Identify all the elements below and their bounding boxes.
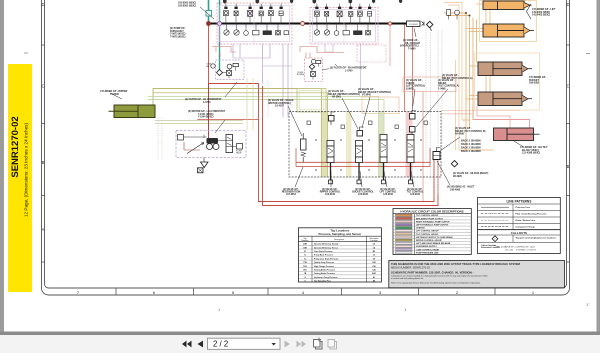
wire pink group outline tilt control [441, 111, 520, 114]
valve bank red pressure gallery [296, 161, 430, 163]
svg-text:(2) VALVE GP -: (2) VALVE GP - [283, 188, 299, 191]
filter LH square X [227, 71, 232, 76]
tap diamond near inlet [451, 161, 457, 167]
svg-text:(LIMIT): (LIMIT) [406, 87, 414, 90]
filter RH stubs [312, 64, 318, 80]
svg-text:C86: C86 [372, 262, 375, 264]
svg-text:Drain / Return Line: Drain / Return Line [516, 219, 536, 222]
wire olive drop to ripper cylinder [152, 89, 154, 106]
svg-text:4D-3901: 4D-3901 [332, 96, 342, 99]
motor LH pump circle 2 [213, 144, 219, 150]
wire red loop inner [263, 86, 439, 206]
valve bank color stripe pale green [379, 112, 385, 178]
leader line lift check label [412, 89, 415, 112]
cylinder GP RH tilt (pink) [494, 128, 540, 141]
svg-text:123-9136: 123-9136 [383, 194, 393, 196]
svg-text:CASE CONTROL DRAIN: CASE CONTROL DRAIN [416, 248, 439, 251]
svg-text:Description: Description [334, 238, 344, 241]
filter LH circle [227, 64, 232, 69]
svg-text:LINE PATTERNS: LINE PATTERNS [506, 199, 531, 203]
relief valve spring [301, 152, 306, 157]
node junction red ring mid [301, 22, 305, 26]
cooler outlet symbol [422, 22, 425, 27]
filter RH diamond [309, 64, 314, 69]
schematic outer border frame [42, 0, 570, 295]
wire red pair to tilt relief [404, 24, 406, 113]
svg-text:LEFT AND RIGHT BRAKE RELEASE: LEFT AND RIGHT BRAKE RELEASE [416, 242, 451, 245]
svg-text:(2) VALVE GP -: (2) VALVE GP - [355, 188, 371, 191]
wire red pair to tilt relief 2 [412, 24, 414, 107]
svg-text:C: C [566, 84, 569, 89]
tank drop line [203, 158, 205, 163]
pump group 2 inner divider [310, 8, 378, 45]
wire tan group outline lift cylinders [480, 1, 537, 42]
filter RH small rect [316, 61, 321, 64]
svg-text:C6: C6 [373, 255, 375, 257]
svg-text:B42: B42 [372, 272, 375, 275]
valve bank color stripe pink [406, 112, 413, 178]
tank square X [198, 168, 204, 173]
svg-text:COOLER: COOLER [409, 24, 418, 26]
svg-text:49-4098: 49-4098 [455, 133, 464, 136]
group outline tan bucket relief [362, 97, 399, 114]
left gray viewer edge [0, 0, 4, 332]
svg-text:5J-4107: 5J-4107 [275, 105, 284, 108]
wire tan bundle horizontals to lift cylinders [444, 13, 470, 16]
bank small squares row top [307, 121, 428, 129]
wire dark red drop from pump node [208, 84, 210, 145]
toolbar snapshot icon [314, 338, 323, 350]
motor LH flushing capsule [226, 135, 233, 153]
svg-text:108-4963: 108-4963 [450, 188, 461, 191]
svg-text:Refer to the appropriate Servi: Refer to the appropriate Service Manual … [391, 282, 481, 285]
leader line cooler label [414, 28, 416, 37]
svg-text:Pump Back Pressure: Pump Back Pressure [314, 255, 333, 257]
svg-text:31: 31 [304, 251, 306, 253]
filter LH square X marks [227, 71, 232, 76]
wire gray drain dotted lines [426, 27, 442, 195]
line patterns table [478, 198, 561, 230]
svg-text:TILT CONTROL GROUP: TILT CONTROL GROUP [416, 215, 439, 217]
inlet housing inner [433, 148, 441, 156]
pump group 1 symbols row upper [224, 11, 284, 17]
motor LH flushing inner lines [226, 137, 233, 147]
check valve dots row [315, 140, 422, 170]
motor LH dark block [207, 138, 219, 144]
svg-text:D: D [566, 2, 569, 7]
svg-text:7-0480: 7-0480 [408, 47, 416, 50]
pilot caps above pump symbols [224, 7, 371, 9]
svg-text:Injection Efficiency Sample: Injection Efficiency Sample [314, 243, 338, 246]
wire tan elbow feeds [456, 3, 463, 151]
wire red return to motor group [198, 119, 259, 121]
pilot valve square tilt [410, 127, 416, 133]
svg-text:LIFT CONTROL GROUP: LIFT CONTROL GROUP [416, 231, 439, 233]
svg-text:9: 9 [304, 281, 305, 283]
svg-text:7B1: 7B1 [303, 270, 306, 272]
node junction maroon filled [206, 21, 211, 26]
cylinder GP bucket lower (brown) [478, 92, 532, 106]
filter group LH boundary [216, 60, 245, 80]
svg-text:9T-3440: 9T-3440 [362, 94, 371, 97]
filter RH square X [311, 72, 316, 77]
pilot valve bucket flag [360, 127, 364, 131]
valve bank boundary dashed [289, 112, 441, 178]
motor LH pump circle 1 [207, 144, 213, 150]
wires pennants to caps [226, 4, 370, 7]
valve bank color stripe olive [322, 112, 328, 178]
wire pale lines right of ripper cylinder [155, 121, 243, 124]
svg-text:D: D [41, 2, 44, 7]
svg-text:B: B [42, 160, 45, 165]
wire tan junction dots [465, 12, 467, 14]
svg-text:(2) VALVE GP - CONTROL GP - 4D: (2) VALVE GP - CONTROL GP - 4D-8 [501, 246, 535, 249]
svg-text:RIPPER CONTROL GROUP: RIPPER CONTROL GROUP [416, 240, 442, 242]
zone tick marks right [567, 45, 570, 262]
pump group 1 boundary (lavender dashed) [217, 3, 292, 44]
node junction red ring right [388, 22, 391, 25]
pump group 2 symbols row lower [314, 30, 370, 36]
spool valve ripper [327, 141, 334, 184]
hydraulic circuit color descriptions table [393, 209, 471, 255]
svg-text:C6: C6 [373, 258, 375, 260]
svg-text:SENR1270-02: SENR1270-02 [10, 116, 21, 177]
svg-text:SCHEMATIC PART NUMBER: 123-339: SCHEMATIC PART NUMBER: 123-3397, CHANGE:… [391, 270, 474, 274]
valve bank bottom labels [282, 188, 424, 196]
leader line valve labels fan [295, 167, 414, 187]
svg-text:7J-8008: 7J-8008 [110, 93, 119, 96]
valve bank color stripe pale yellow [346, 112, 352, 178]
oil cooler box [407, 21, 421, 26]
svg-text:Implement Temp Pressure: Implement Temp Pressure [314, 276, 338, 279]
pump group 2 boundary (pink dashed) [310, 8, 378, 45]
svg-text:7-0975 (953C): 7-0975 (953C) [170, 35, 186, 38]
svg-text:141-9403 (953C): 141-9403 (953C) [532, 14, 550, 17]
zone tick marks left [42, 45, 45, 262]
pump group 1 inner divider [217, 3, 292, 44]
svg-text:12 Page, (Dimensions: 23 Inche: 12 Page, (Dimensions: 23 Inches x 24 Inc… [23, 123, 28, 217]
svg-text:A: A [42, 227, 45, 232]
svg-text:BYPASS: BYPASS [297, 73, 305, 76]
svg-text:High Charge Pressure: High Charge Pressure [314, 266, 334, 268]
callouts table [478, 230, 561, 254]
wire tan verticals down right side [466, 13, 477, 150]
svg-text:1-0498: 1-0498 [438, 87, 446, 90]
svg-text:103-8581 (953C): 103-8581 (953C) [178, 4, 196, 7]
svg-text:Location: Location [370, 239, 378, 242]
filter LH stubs [223, 67, 236, 79]
wire gray drain near motor [158, 44, 292, 160]
filter RH leader [322, 69, 329, 70]
cylinder GP lift lower (orange) [483, 24, 534, 37]
svg-text:C46: C46 [372, 269, 375, 272]
svg-text:123-9136: 123-9136 [358, 194, 368, 196]
svg-text:Towing Brake Pressure: Towing Brake Pressure [314, 273, 335, 275]
svg-text:CALLOUTS: CALLOUTS [511, 231, 527, 235]
svg-text:1": 1" [586, 302, 590, 307]
toolbar first-page button [182, 341, 192, 348]
wire red loop outer (implement pump) [209, 24, 435, 202]
wire red elbow pump2 to filter [300, 47, 344, 59]
valve bank red gallery lower [296, 148, 430, 167]
wire tan group outline bucket cylinders [475, 53, 540, 110]
svg-text:C86: C86 [372, 266, 375, 268]
pump group 1 symbols row lower [224, 30, 289, 36]
svg-text:THIS SCHEMATIC IS FOR THE 953C: THIS SCHEMATIC IS FOR THE 953C AND 953C … [391, 262, 521, 266]
svg-text:BACK 2 109-8806: BACK 2 109-8806 [461, 150, 481, 153]
wire lavender pilot mesh pump2 [325, 44, 361, 90]
svg-text:LEFT/RIGHT SUPPLY TO CASE DRAI: LEFT/RIGHT SUPPLY TO CASE DRAIN [416, 236, 453, 239]
wire pale-green horizontal lower [148, 100, 384, 178]
svg-text:7-1544 (953C): 7-1544 (953C) [198, 116, 214, 119]
wire pink tilt lines to cylinder [473, 106, 530, 128]
top edge cut symbols [223, 0, 402, 4]
filter LH diamond [217, 70, 223, 76]
svg-text:107-6054: 107-6054 [286, 193, 296, 196]
relief cluster right of pump 2 [447, 10, 460, 20]
lift cylinders label bracket [527, 4, 532, 19]
svg-text:109-6382: 109-6382 [529, 82, 540, 85]
tank square X marks [198, 168, 204, 173]
pale drain verticals filter to motor [247, 78, 253, 131]
relief valve in bank [301, 139, 307, 150]
svg-text:CHARGE: CHARGE [416, 227, 425, 230]
svg-text:Pressure Line: Pressure Line [516, 207, 531, 209]
svg-text:B5: B5 [373, 251, 375, 253]
leader line filter LH label [225, 82, 237, 97]
toolbar last-page button disabled [297, 341, 307, 348]
toolbar dropdown caret [272, 343, 276, 346]
svg-text:Pump Case Drain Pressure: Pump Case Drain Pressure [314, 258, 338, 260]
filter RH circle [312, 59, 316, 63]
tap locations table [298, 228, 381, 283]
svg-text:HYDRAULIC CIRCUIT COLOR DESCRI: HYDRAULIC CIRCUIT COLOR DESCRIPTIONS [400, 210, 463, 214]
wire lavender pilot mesh verticals [233, 44, 288, 118]
pilot valve tilt flag [411, 132, 413, 135]
svg-text:1-0700: 1-0700 [345, 69, 353, 72]
page fold tick right margin [586, 53, 590, 55]
toolbar page field [208, 338, 281, 349]
motor LH flush valve box [237, 144, 243, 150]
wire pale-green horizontal upper [148, 97, 379, 178]
leader line inlet label [437, 161, 450, 185]
pump group 1 internal stub wires [226, 16, 281, 31]
svg-text:1-0700: 1-0700 [203, 101, 211, 104]
node junction purple ring [218, 22, 222, 26]
svg-text:(2) VALVE GP -: (2) VALVE GP - [380, 188, 396, 191]
toolbar prev-page button [198, 341, 204, 348]
svg-text:REGENERATION: REGENERATION [282, 191, 301, 194]
pump group 2 internal stub wires [317, 16, 370, 31]
schematic inner border frame [45, 0, 567, 288]
bottom zone ticks [116, 288, 495, 295]
tap diamond at cooler [427, 21, 433, 27]
tap diamond tail [430, 28, 432, 31]
svg-text:123-9136: 123-9136 [410, 194, 420, 196]
svg-text:LEFT HYDRAULIC PUMP OUTPUT: LEFT HYDRAULIC PUMP OUTPUT [416, 224, 449, 227]
svg-text:76/5: 76/5 [303, 266, 307, 268]
svg-text:2 / 2: 2 / 2 [213, 340, 228, 349]
motor LH left port square [178, 135, 184, 141]
svg-text:Towing Brake Pressure: Towing Brake Pressure [314, 270, 335, 272]
wire purple drop from bus node [219, 24, 221, 45]
svg-text:SUSPENDED SUPPLY: SUSPENDED SUPPLY [416, 246, 437, 248]
leader line tilt relief label [416, 89, 448, 127]
svg-text:RIGHT HYDRAULIC PUMP OUTPUT: RIGHT HYDRAULIC PUMP OUTPUT [416, 220, 450, 223]
svg-text:Quality Loop Pressure: Quality Loop Pressure [314, 261, 334, 264]
cylinder GP ripper (olive) [109, 105, 156, 118]
svg-text:Component Group: Component Group [516, 226, 536, 229]
filter RH square X marks [311, 72, 316, 77]
motor LH wire red branch [184, 142, 200, 150]
toolbar separator [0, 332, 600, 336]
leader line ripper cyl label [110, 93, 122, 99]
pilot valve square bucket [357, 131, 363, 137]
bottom zone numbers [77, 290, 535, 295]
cylinder GP bucket upper (brown) [478, 62, 532, 76]
svg-text:98-4995: 98-4995 [453, 175, 462, 178]
svg-text:C8 - C31: C8 - C31 [505, 250, 514, 252]
leader line pump label [200, 7, 214, 19]
svg-text:A1: A1 [373, 276, 375, 279]
spool valve lift [380, 135, 387, 184]
group outline light red tilt check [403, 77, 456, 92]
filter group RH boundary [305, 58, 323, 82]
leader line solex label [288, 106, 302, 136]
pilot valve ripper flag [331, 112, 335, 125]
wire tan into bucket cylinders [459, 4, 494, 150]
relief valve stem [302, 133, 304, 162]
svg-text:Case Drain Pressure: Case Drain Pressure [314, 251, 333, 253]
toolbar background [0, 335, 600, 353]
svg-text:Number: Number [301, 240, 308, 242]
motor LH internal wires [184, 135, 237, 147]
filter LH small rect [233, 64, 239, 67]
pump group 2 symbols row upper [315, 11, 372, 17]
svg-text:B: B [567, 164, 570, 169]
svg-text:RELIEF (TILT CONTROL A): RELIEF (TILT CONTROL A) [442, 77, 473, 80]
toolbar next-page button disabled [285, 341, 291, 348]
svg-text:8: 8 [304, 277, 305, 279]
page fold tick left margin [24, 52, 28, 54]
svg-text:Pilot / Load Sensing Pressure: Pilot / Load Sensing Pressure [516, 213, 548, 216]
wire red elbow pump1 to filter [212, 47, 236, 59]
svg-text:MEGA NUMBER: SENR1270-02: MEGA NUMBER: SENR1270-02 [391, 265, 430, 269]
svg-text:in neutral and with parking br: in neutral and with parking brake set. [391, 277, 424, 280]
svg-text:Tap Sampling Port: Tap Sampling Port [314, 280, 331, 283]
pilot valve square lift [410, 114, 416, 120]
leader line bucket relief label [362, 97, 370, 128]
cylinder GP lift upper (orange) [483, 1, 532, 10]
svg-text:Injection Efficiency Sensor: Injection Efficiency Sensor [314, 246, 338, 249]
motor group LH boundary [176, 131, 246, 158]
group outline khaki ripper relief [297, 89, 326, 113]
motor LH arrow pointer [187, 143, 204, 154]
svg-text:IMPLEMENT PUMP OUTPUT: IMPLEMENT PUMP OUTPUT [416, 218, 444, 220]
wire olive pair lower [153, 93, 328, 177]
svg-text:C: C [41, 84, 44, 89]
spool valve tilt [407, 135, 414, 184]
svg-text:TILT CONTROL GROUP: TILT CONTROL GROUP [416, 234, 439, 236]
svg-text:Pressure, Sampling, and Sensor: Pressure, Sampling, and Sensor [318, 232, 362, 236]
line as circle [211, 64, 215, 68]
wire olive pair horizontal to valve bank [153, 89, 322, 178]
svg-text:121-4396 (953C): 121-4396 (953C) [522, 152, 540, 155]
svg-text:(2) VALVE GP -: (2) VALVE GP - [322, 188, 338, 191]
gray note block [389, 261, 565, 288]
pilot valve lift flag [412, 111, 416, 114]
svg-text:VALVE: VALVE [236, 152, 242, 155]
wire main black pressure bus [209, 23, 413, 25]
pilot valve square ripper [329, 116, 335, 122]
svg-text:Tap (pressure/sampling/sensor: Tap (pressure/sampling/sensor location) [516, 236, 556, 239]
wire pale orange feeds at very top [444, 3, 462, 6]
leader line filter RH label [335, 64, 337, 66]
svg-text:Schematic Location: Schematic Location [481, 246, 501, 249]
leader line ripper relief label [342, 98, 358, 129]
leader line tilt cyl label [513, 141, 523, 147]
wire teal supply A (vertical from top) [208, 0, 210, 24]
wire red vertical inside loop [422, 92, 424, 202]
wire teal supply B (vertical through node down) [219, 0, 221, 70]
spool valve bucket [356, 141, 363, 184]
group boundary pink dashed below pump2 [357, 45, 386, 62]
svg-text:(2) VALVE GP -: (2) VALVE GP - [407, 188, 423, 191]
leader line tilt relief B [440, 137, 460, 151]
wire pink tilt line 2 [477, 106, 510, 128]
wire lavender horizontals [233, 52, 333, 66]
group outline pale green inner [299, 91, 324, 110]
svg-text:SCHEMATIC LOCATION: SCHEMATIC LOCATION [516, 249, 537, 252]
wire light red stub [389, 24, 391, 67]
solenoid block on teal line [206, 11, 212, 17]
svg-text:PUMP PRESSURE LINE: PUMP PRESSURE LINE [416, 252, 439, 254]
right gray viewer edge [597, 0, 600, 332]
tank funnel [201, 162, 209, 168]
svg-text:123-9136: 123-9136 [325, 194, 335, 196]
leader line motor LH label [215, 120, 225, 133]
inlet housing square [433, 152, 440, 160]
toolbar snapshot icon disabled [328, 340, 337, 350]
